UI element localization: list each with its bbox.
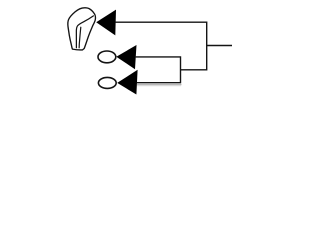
- node A blob inner crease line: [79, 27, 81, 48]
- arrowhead into node B: [116, 45, 136, 69]
- wire from arrowhead A right, down the bus, left to junction: [115, 22, 206, 70]
- node B ellipse: [98, 51, 116, 63]
- wire bracket joining node B and node C lines: [135, 57, 181, 83]
- wire stub to the right (root edge): [207, 45, 232, 47]
- node A blob inner contour: [76, 16, 93, 48]
- faint ghost shadow under node C wire: [137, 84, 182, 86]
- arrowhead into node C: [117, 70, 137, 95]
- node C ellipse: [98, 77, 116, 88]
- node A freehand blob outer outline: [68, 8, 96, 50]
- arrowhead into node A: [96, 10, 116, 36]
